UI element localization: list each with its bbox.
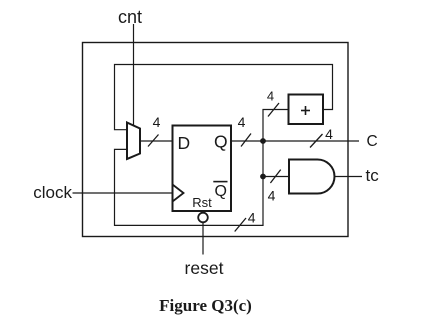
- svg-text:4: 4: [325, 126, 333, 142]
- svg-text:C: C: [367, 133, 378, 150]
- svg-text:reset: reset: [185, 258, 224, 278]
- reset bubble (active-low): [198, 213, 208, 223]
- svg-text:tc: tc: [366, 166, 380, 185]
- wire tc output: [335, 176, 363, 178]
- wire Q output to C: [231, 140, 359, 142]
- bus slash +1 input: [268, 103, 279, 117]
- clock triangle: [173, 185, 184, 202]
- bus slash AND input: [270, 170, 280, 183]
- svg-text:4: 4: [238, 114, 246, 130]
- svg-text:4: 4: [268, 188, 276, 204]
- junction node AND input: [260, 174, 266, 180]
- D flip-flop register: [173, 126, 232, 212]
- mux (2:1 multiplexer trapezoid): [127, 123, 140, 160]
- incrementer +1 block: [289, 95, 324, 125]
- outer box (module boundary): [83, 43, 349, 237]
- bus slash C output: [310, 134, 323, 148]
- bus slash D input: [148, 135, 159, 147]
- svg-text:Q: Q: [214, 132, 228, 152]
- plus sign: [305, 106, 307, 115]
- wire clock: [73, 192, 173, 194]
- wire top feedback (+1 output to mux input 1): [115, 65, 333, 130]
- wire reset: [202, 223, 204, 255]
- svg-text:cnt: cnt: [118, 7, 142, 27]
- bus slash bottom feedback: [235, 218, 246, 232]
- wire mux input 0 (Q feedback path): [115, 141, 264, 225]
- junction node Q/C: [260, 138, 266, 144]
- svg-text:Rst: Rst: [192, 195, 212, 210]
- wire mux output to D input: [140, 140, 173, 142]
- svg-text:clock: clock: [33, 183, 72, 202]
- svg-text:4: 4: [153, 114, 161, 130]
- bus slash Q output: [241, 134, 251, 147]
- svg-text:Figure Q3(c): Figure Q3(c): [159, 296, 252, 315]
- wire cnt select into mux: [133, 24, 135, 126]
- wire to incrementer input: [263, 110, 289, 142]
- svg-text:D: D: [178, 133, 191, 153]
- svg-text:4: 4: [248, 210, 256, 226]
- wire to AND gate: [263, 176, 289, 178]
- AND gate (reduction): [289, 160, 335, 194]
- svg-text:4: 4: [267, 89, 274, 104]
- svg-text:Q: Q: [215, 183, 227, 200]
